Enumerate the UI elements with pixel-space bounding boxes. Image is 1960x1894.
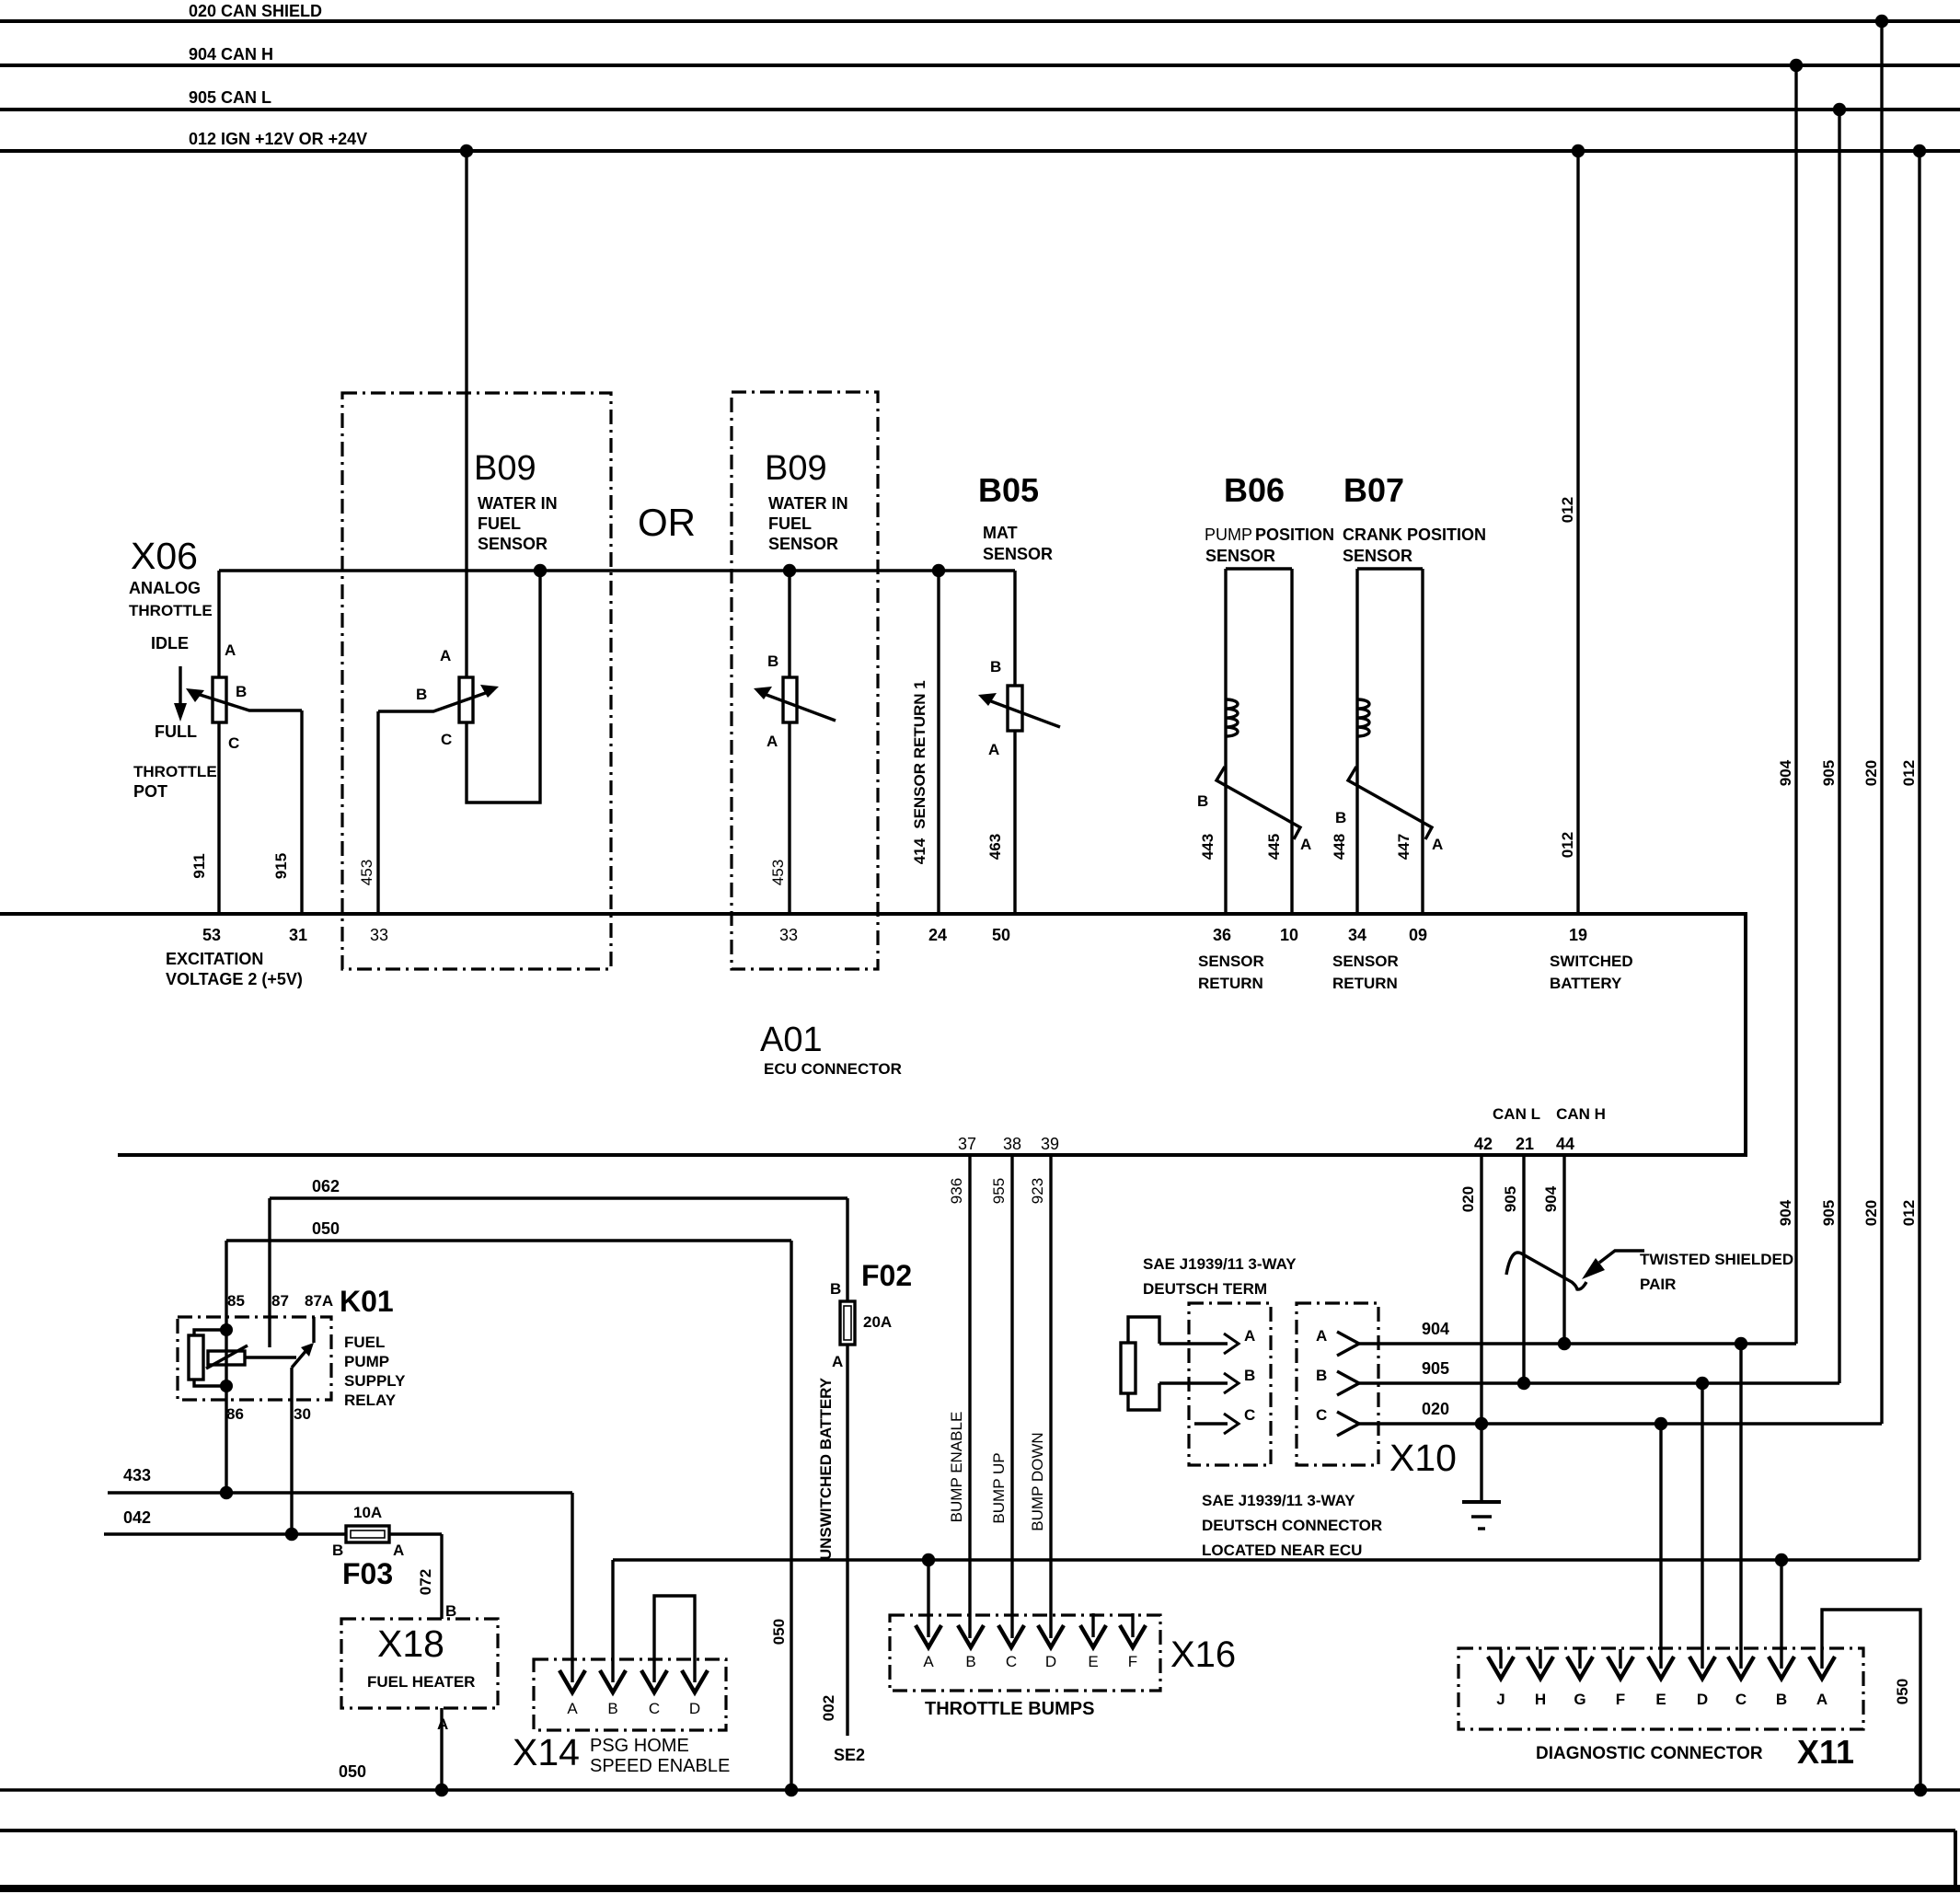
twisted shielded pair symbol xyxy=(1506,1253,1586,1289)
svg-text:936: 936 xyxy=(948,1178,965,1204)
wire 012 IGN bus xyxy=(0,149,1960,153)
connector A01 ECU box xyxy=(0,914,1746,1155)
svg-text:C: C xyxy=(649,1700,660,1717)
svg-text:30: 30 xyxy=(294,1405,311,1423)
svg-text:SENSOR: SENSOR xyxy=(1198,953,1264,970)
svg-text:955: 955 xyxy=(990,1178,1008,1204)
svg-text:WATER IN: WATER IN xyxy=(768,494,848,513)
svg-text:B: B xyxy=(1776,1691,1787,1708)
svg-text:31: 31 xyxy=(289,926,307,944)
wire 936 bump enable xyxy=(968,1155,971,1638)
svg-text:B: B xyxy=(1244,1367,1255,1384)
arrow X11 F xyxy=(1619,1649,1621,1669)
svg-text:LOCATED NEAR ECU: LOCATED NEAR ECU xyxy=(1202,1542,1362,1559)
svg-text:020 CAN SHIELD: 020 CAN SHIELD xyxy=(189,2,322,20)
svg-text:A: A xyxy=(1316,1327,1327,1345)
svg-text:87A: 87A xyxy=(305,1292,333,1310)
svg-text:A: A xyxy=(393,1542,404,1559)
potentiometer B09-1 xyxy=(459,677,473,722)
svg-text:B: B xyxy=(767,653,778,670)
svg-text:A: A xyxy=(832,1353,843,1370)
svg-text:B: B xyxy=(236,683,247,700)
svg-text:10A: 10A xyxy=(353,1504,382,1521)
wire 905 CAN L bus xyxy=(0,108,1960,111)
svg-text:PUMP: PUMP xyxy=(344,1353,389,1370)
arrow X11 J xyxy=(1499,1649,1502,1669)
svg-text:FUEL HEATER: FUEL HEATER xyxy=(367,1673,475,1691)
svg-text:ANALOG: ANALOG xyxy=(129,579,201,597)
idle-full direction arrow xyxy=(179,666,181,709)
svg-text:WATER IN: WATER IN xyxy=(478,494,558,513)
svg-text:ECU CONNECTOR: ECU CONNECTOR xyxy=(764,1060,902,1078)
contact chevron X10 C xyxy=(1337,1412,1359,1436)
svg-text:RETURN: RETURN xyxy=(1332,975,1398,992)
svg-text:SENSOR RETURN 1: SENSOR RETURN 1 xyxy=(911,680,928,829)
wire 414 sensor return 1 to pin 24 xyxy=(937,571,940,914)
wire 062 drop to fuse B xyxy=(846,1198,848,1301)
svg-text:D: D xyxy=(689,1700,700,1717)
svg-text:050: 050 xyxy=(770,1619,788,1645)
wire 85-86 vertical through coil xyxy=(225,1241,227,1493)
svg-text:B09: B09 xyxy=(474,449,536,488)
svg-text:X16: X16 xyxy=(1170,1634,1236,1675)
wire 915 to pin 31 xyxy=(300,710,303,914)
svg-text:A: A xyxy=(1816,1691,1827,1708)
svg-text:915: 915 xyxy=(272,853,290,879)
wire B09-1 loop to excitation xyxy=(467,571,540,803)
svg-text:072: 072 xyxy=(417,1569,434,1595)
wire 463 to pin 50 xyxy=(1013,731,1016,914)
inductor B07 coil xyxy=(1357,699,1369,736)
arrow X11 H xyxy=(1539,1649,1541,1669)
svg-text:002: 002 xyxy=(820,1695,837,1721)
resistor terminator xyxy=(1121,1343,1136,1393)
svg-text:414: 414 xyxy=(911,837,928,864)
contact 87A stub xyxy=(312,1317,315,1343)
svg-text:C: C xyxy=(228,734,239,752)
wire 433 xyxy=(108,1491,572,1494)
svg-text:SAE J1939/11 3-WAY: SAE J1939/11 3-WAY xyxy=(1143,1255,1297,1273)
wire 904 CAN H link xyxy=(1359,1342,1796,1345)
svg-text:050: 050 xyxy=(339,1762,366,1781)
svg-text:19: 19 xyxy=(1569,926,1587,944)
svg-text:RELAY: RELAY xyxy=(344,1392,397,1409)
svg-text:B: B xyxy=(445,1602,456,1620)
wire 002 unswitched battery to SE2 xyxy=(846,1345,848,1736)
wire B09-2 pin B to excitation xyxy=(788,571,790,677)
switch blade B07 xyxy=(1348,767,1432,839)
wire X16 A from ign feed xyxy=(927,1560,929,1637)
svg-text:B: B xyxy=(965,1653,975,1670)
svg-text:453: 453 xyxy=(358,860,375,885)
svg-text:CAN H: CAN H xyxy=(1556,1105,1606,1123)
svg-text:C: C xyxy=(1006,1653,1017,1670)
wire X06 pin A to excitation xyxy=(217,571,220,677)
svg-text:37: 37 xyxy=(958,1135,976,1153)
svg-text:C: C xyxy=(1316,1406,1327,1424)
svg-text:433: 433 xyxy=(123,1466,151,1484)
svg-text:A: A xyxy=(440,647,451,664)
arrow term C xyxy=(1194,1422,1228,1425)
svg-text:E: E xyxy=(1655,1691,1666,1708)
svg-text:012: 012 xyxy=(1900,1200,1918,1226)
svg-text:B: B xyxy=(1316,1367,1327,1384)
wire B05 pin B feed xyxy=(1013,571,1016,686)
switch blade B06 xyxy=(1216,767,1300,839)
arrow X16 F xyxy=(1131,1613,1134,1637)
contact chevron X10 B xyxy=(1337,1371,1359,1395)
svg-text:020: 020 xyxy=(1862,760,1880,786)
svg-text:POSITION: POSITION xyxy=(1255,525,1334,544)
svg-text:DEUTSCH CONNECTOR: DEUTSCH CONNECTOR xyxy=(1202,1517,1382,1534)
svg-text:BUMP UP: BUMP UP xyxy=(990,1452,1008,1523)
svg-text:SE2: SE2 xyxy=(834,1746,865,1764)
svg-text:CAN L: CAN L xyxy=(1493,1105,1540,1123)
svg-text:B: B xyxy=(1197,792,1208,810)
svg-text:453: 453 xyxy=(769,860,787,885)
svg-text:RETURN: RETURN xyxy=(1198,975,1263,992)
wire X11 B from ign feed xyxy=(1780,1560,1782,1669)
wire 955 bump up xyxy=(1010,1155,1013,1638)
svg-text:J: J xyxy=(1496,1691,1505,1708)
svg-text:X10: X10 xyxy=(1389,1437,1457,1479)
arrow term B xyxy=(1159,1381,1228,1384)
svg-text:B09: B09 xyxy=(765,449,827,488)
svg-text:OR: OR xyxy=(638,501,696,544)
terminator dashed box xyxy=(1189,1303,1271,1465)
node junction dots on bus lines xyxy=(460,144,473,157)
svg-text:21: 21 xyxy=(1516,1135,1534,1153)
svg-text:905: 905 xyxy=(1820,1200,1838,1226)
svg-text:THROTTLE: THROTTLE xyxy=(133,763,217,780)
fuse F02 20A xyxy=(840,1301,855,1345)
wiper arrow B05 xyxy=(984,699,1060,727)
wire 453 second to pin 33 xyxy=(788,722,790,914)
svg-text:A01: A01 xyxy=(760,1021,823,1059)
svg-text:PAIR: PAIR xyxy=(1640,1276,1676,1293)
svg-text:905 CAN L: 905 CAN L xyxy=(189,88,271,107)
wire 30 to 042 xyxy=(290,1368,293,1534)
svg-text:904: 904 xyxy=(1422,1320,1449,1338)
border bottom line xyxy=(0,1885,1960,1892)
svg-text:SENSOR: SENSOR xyxy=(478,535,548,553)
wire X11 E from 020 xyxy=(1659,1424,1662,1669)
border right edge xyxy=(1954,1830,1957,1888)
svg-text:020: 020 xyxy=(1459,1186,1477,1212)
wire 453 to pin 33 xyxy=(376,711,379,914)
svg-text:85: 85 xyxy=(227,1292,245,1310)
arrow X16 B from 936 xyxy=(958,1625,984,1647)
svg-text:B: B xyxy=(1335,809,1346,826)
svg-text:VOLTAGE 2 (+5V): VOLTAGE 2 (+5V) xyxy=(166,970,303,988)
svg-text:A: A xyxy=(225,641,236,659)
svg-text:A: A xyxy=(923,1653,934,1670)
svg-text:B: B xyxy=(607,1700,617,1717)
svg-text:911: 911 xyxy=(190,853,208,878)
svg-text:923: 923 xyxy=(1029,1178,1046,1204)
svg-text:SENSOR: SENSOR xyxy=(1343,547,1412,565)
wire 012 right vertical xyxy=(1918,151,1920,1560)
svg-text:012: 012 xyxy=(1559,497,1576,523)
svg-text:905: 905 xyxy=(1422,1359,1449,1378)
wire 443 B06 left leg to pin 36 xyxy=(1224,569,1227,914)
svg-text:A: A xyxy=(1432,836,1443,853)
svg-text:SENSOR: SENSOR xyxy=(983,545,1053,563)
svg-text:C: C xyxy=(441,731,452,748)
svg-text:20A: 20A xyxy=(863,1313,892,1331)
wire 012 drop to B09 pot xyxy=(465,151,467,677)
svg-text:904 CAN H: 904 CAN H xyxy=(189,45,273,64)
svg-text:SAE J1939/11 3-WAY: SAE J1939/11 3-WAY xyxy=(1202,1492,1355,1509)
wire X11 D from 905 xyxy=(1701,1383,1703,1669)
connector X18 fuel heater xyxy=(341,1619,498,1708)
svg-text:A: A xyxy=(988,741,999,758)
svg-text:SENSOR: SENSOR xyxy=(1332,953,1399,970)
svg-text:K01: K01 xyxy=(340,1285,394,1318)
wire ign feed horizontal xyxy=(613,1558,1920,1561)
wire 020 shield link xyxy=(1359,1422,1882,1425)
wire B06 top bridge xyxy=(1226,567,1292,570)
wire 447 B07 right leg to pin 09 xyxy=(1421,569,1424,914)
svg-text:904: 904 xyxy=(1777,759,1794,786)
svg-text:042: 042 xyxy=(123,1508,151,1527)
svg-text:H: H xyxy=(1535,1691,1546,1708)
svg-text:BUMP DOWN: BUMP DOWN xyxy=(1029,1432,1046,1530)
svg-text:F02: F02 xyxy=(861,1259,912,1292)
svg-text:012 IGN +12V OR +24V: 012 IGN +12V OR +24V xyxy=(189,130,367,148)
relay K01 dashed box xyxy=(178,1317,331,1400)
svg-text:A: A xyxy=(767,733,778,750)
svg-text:EXCITATION: EXCITATION xyxy=(166,950,263,968)
arrow X11 G xyxy=(1578,1649,1581,1669)
svg-text:F: F xyxy=(1616,1691,1625,1708)
svg-text:IDLE: IDLE xyxy=(151,634,189,653)
svg-text:PUMP: PUMP xyxy=(1205,525,1252,544)
svg-text:UNSWITCHED BATTERY: UNSWITCHED BATTERY xyxy=(817,1377,835,1560)
wire 905 CAN L link xyxy=(1359,1381,1839,1384)
svg-text:50: 50 xyxy=(992,926,1010,944)
contact chevron X10 A xyxy=(1337,1332,1359,1356)
svg-text:F: F xyxy=(1128,1653,1137,1670)
svg-text:FULL: FULL xyxy=(155,722,197,741)
sensor B09 dashed box 2 xyxy=(732,392,878,969)
arrow X14 D xyxy=(682,1670,708,1692)
wire 020 from pin 42 xyxy=(1480,1155,1482,1500)
svg-text:TWISTED SHIELDED: TWISTED SHIELDED xyxy=(1640,1251,1793,1268)
svg-text:B: B xyxy=(990,658,1001,676)
wire 905 right vertical xyxy=(1838,110,1840,1383)
svg-text:B05: B05 xyxy=(978,471,1039,509)
svg-text:33: 33 xyxy=(370,926,388,944)
svg-text:39: 39 xyxy=(1041,1135,1059,1153)
wire 923 bump down xyxy=(1049,1155,1052,1638)
svg-text:38: 38 xyxy=(1003,1135,1021,1153)
svg-text:D: D xyxy=(1697,1691,1708,1708)
wire 904 from pin 44 xyxy=(1562,1155,1565,1344)
wire 87 stub from 062 xyxy=(268,1198,271,1347)
wire 911 to pin 53 xyxy=(217,722,220,914)
wire 062 xyxy=(270,1196,847,1199)
svg-text:012: 012 xyxy=(1900,760,1918,786)
svg-text:B: B xyxy=(830,1280,841,1298)
svg-text:F03: F03 xyxy=(342,1557,393,1590)
svg-text:905: 905 xyxy=(1820,760,1838,786)
wire X14 C-D jumper loop xyxy=(654,1596,695,1682)
svg-text:87: 87 xyxy=(271,1292,289,1310)
svg-text:10: 10 xyxy=(1280,926,1298,944)
connector X11 dashed box xyxy=(1458,1648,1863,1729)
svg-text:X06: X06 xyxy=(131,535,198,577)
arrow X16 E xyxy=(1091,1613,1094,1637)
svg-text:904: 904 xyxy=(1777,1199,1794,1226)
potentiometer B09-2 xyxy=(783,677,797,722)
potentiometer B05 xyxy=(1008,686,1022,731)
wire 050 ground bus xyxy=(0,1788,1960,1791)
svg-text:A: A xyxy=(567,1700,578,1717)
arrow term A xyxy=(1159,1342,1228,1345)
svg-text:050: 050 xyxy=(312,1219,340,1238)
svg-text:PSG HOME: PSG HOME xyxy=(590,1736,689,1756)
svg-text:24: 24 xyxy=(928,926,947,944)
wire 050 vertical drop xyxy=(790,1241,792,1790)
svg-text:443: 443 xyxy=(1199,834,1216,860)
wire 072 to X18 xyxy=(440,1534,443,1619)
wire B07 top bridge xyxy=(1357,567,1423,570)
wiper arrow B09-2 xyxy=(759,692,836,721)
svg-text:33: 33 xyxy=(779,926,798,944)
sensor B09 dashed box 1 xyxy=(342,393,611,969)
svg-text:SENSOR: SENSOR xyxy=(1205,547,1275,565)
connector X10 dashed box xyxy=(1297,1303,1378,1465)
svg-text:012: 012 xyxy=(1559,832,1576,858)
svg-text:36: 36 xyxy=(1213,926,1231,944)
wire X11 A from 050 xyxy=(1822,1610,1920,1790)
wire 448 B07 left leg to pin 34 xyxy=(1355,569,1358,914)
svg-text:463: 463 xyxy=(986,834,1004,860)
svg-text:53: 53 xyxy=(202,926,221,944)
svg-text:BATTERY: BATTERY xyxy=(1550,975,1622,992)
svg-text:020: 020 xyxy=(1422,1400,1449,1418)
ground symbol xyxy=(1462,1500,1501,1504)
connector X16 dashed box xyxy=(890,1615,1160,1691)
wire X18 pin A to 050 xyxy=(440,1708,443,1790)
svg-text:BUMP ENABLE: BUMP ENABLE xyxy=(948,1412,965,1523)
svg-text:POT: POT xyxy=(133,782,167,801)
arrow X16 D from 923 xyxy=(1038,1625,1064,1647)
potentiometer X06 throttle pot xyxy=(213,677,226,722)
wire 904 right vertical xyxy=(1794,65,1797,1344)
svg-text:905: 905 xyxy=(1502,1186,1519,1212)
switch blade K01 xyxy=(292,1349,307,1368)
svg-text:C: C xyxy=(1735,1691,1747,1708)
svg-text:A: A xyxy=(1244,1327,1255,1345)
svg-text:THROTTLE: THROTTLE xyxy=(129,602,213,619)
svg-text:MAT: MAT xyxy=(983,524,1018,542)
arrow X16 C from 955 xyxy=(998,1625,1024,1647)
svg-text:B: B xyxy=(416,686,427,703)
svg-text:B06: B06 xyxy=(1224,471,1285,509)
wiper arrow B09-1 xyxy=(378,690,493,711)
svg-text:050: 050 xyxy=(1894,1679,1911,1704)
svg-text:THROTTLE BUMPS: THROTTLE BUMPS xyxy=(925,1699,1094,1719)
svg-text:44: 44 xyxy=(1556,1135,1574,1153)
relay coil K01 xyxy=(189,1335,203,1380)
svg-text:DIAGNOSTIC CONNECTOR: DIAGNOSTIC CONNECTOR xyxy=(1536,1744,1763,1763)
wire X11 C from 904 xyxy=(1739,1344,1742,1669)
relay armature K01 xyxy=(208,1351,245,1365)
wire 904 CAN H bus xyxy=(0,64,1960,67)
svg-text:020: 020 xyxy=(1862,1200,1880,1226)
svg-text:FUEL: FUEL xyxy=(478,514,521,533)
svg-text:SWITCHED: SWITCHED xyxy=(1550,953,1633,970)
wire 050 upper xyxy=(226,1239,791,1241)
svg-text:B07: B07 xyxy=(1343,471,1404,509)
svg-text:D: D xyxy=(1045,1653,1056,1670)
wiper arrow X06 xyxy=(191,692,302,710)
svg-text:34: 34 xyxy=(1348,926,1366,944)
svg-text:X14: X14 xyxy=(513,1731,580,1773)
svg-text:448: 448 xyxy=(1331,834,1348,860)
wire 020 CAN SHIELD bus xyxy=(0,19,1960,23)
svg-text:C: C xyxy=(1244,1406,1255,1424)
svg-text:FUEL: FUEL xyxy=(344,1334,385,1351)
wire 445 B06 right leg to pin 10 xyxy=(1290,569,1293,914)
svg-text:FUEL: FUEL xyxy=(768,514,812,533)
svg-text:SPEED ENABLE: SPEED ENABLE xyxy=(590,1756,730,1776)
wire 042 xyxy=(104,1532,442,1535)
wire 433 drop to X14 A xyxy=(571,1493,573,1682)
svg-text:42: 42 xyxy=(1474,1135,1493,1153)
svg-text:G: G xyxy=(1574,1691,1585,1708)
svg-text:062: 062 xyxy=(312,1177,340,1195)
svg-text:447: 447 xyxy=(1395,834,1412,860)
wire 905 from pin 21 xyxy=(1522,1155,1525,1383)
wire 020 right vertical xyxy=(1880,21,1883,1424)
inductor B06 coil xyxy=(1226,699,1238,736)
wire excitation +5V horizontal xyxy=(219,569,1015,572)
svg-text:09: 09 xyxy=(1409,926,1427,944)
svg-text:SUPPLY: SUPPLY xyxy=(344,1372,406,1390)
fuse F03 10A xyxy=(346,1526,389,1542)
svg-text:A: A xyxy=(1300,836,1311,853)
svg-text:X11: X11 xyxy=(1797,1733,1854,1771)
border separator line xyxy=(0,1829,1955,1832)
svg-text:DEUTSCH TERM: DEUTSCH TERM xyxy=(1143,1280,1267,1298)
svg-text:CRANK POSITION: CRANK POSITION xyxy=(1343,525,1486,544)
svg-text:904: 904 xyxy=(1542,1185,1560,1212)
connector X14 dashed box xyxy=(534,1659,726,1730)
wire X14 B from ign feed xyxy=(611,1560,614,1682)
svg-text:SENSOR: SENSOR xyxy=(768,535,838,553)
svg-text:X18: X18 xyxy=(377,1623,444,1665)
svg-text:445: 445 xyxy=(1265,834,1283,860)
svg-text:86: 86 xyxy=(226,1405,244,1423)
wire 012 drop to ECU pin 19 xyxy=(1576,151,1579,914)
svg-text:E: E xyxy=(1088,1653,1098,1670)
